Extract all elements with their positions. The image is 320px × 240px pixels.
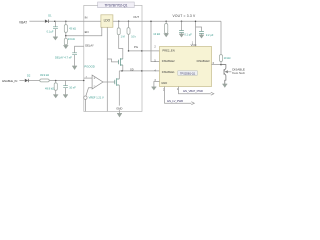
svg-text:TPS7B7702-Q1: TPS7B7702-Q1 bbox=[104, 3, 127, 7]
OUT wire to right bbox=[142, 20, 221, 22]
VCC drop wire with C5 tap bbox=[195, 21, 197, 46]
svg-text:PG: PG bbox=[134, 45, 138, 49]
outer IC block U1 TPS7B7702-Q1 bbox=[84, 5, 142, 111]
ground symbol (U1 GND pin) bbox=[117, 111, 122, 117]
resistor R4 (pull-down) bbox=[54, 81, 57, 95]
svg-text:D1: D1 bbox=[48, 13, 52, 17]
IC U3 (yellow box) bbox=[160, 47, 212, 87]
svg-text:DELAY: DELAY bbox=[85, 43, 94, 47]
junction C bbox=[55, 80, 57, 82]
svg-text:10 nF: 10 nF bbox=[69, 86, 76, 90]
wire VBAT to diode bbox=[29, 20, 44, 22]
svg-text:TPS2DB1-Q1: TPS2DB1-Q1 bbox=[180, 71, 196, 75]
svg-text:13 kΩ: 13 kΩ bbox=[68, 37, 75, 41]
wire OUT down to pin 5 of U3 bbox=[151, 21, 160, 61]
junction A on VBAT line bbox=[54, 20, 56, 22]
label DISABLE from SoC bbox=[232, 67, 246, 75]
svg-text:DELAY 4.7 nF: DELAY 4.7 nF bbox=[55, 55, 72, 59]
resistor R1 (upper divider) bbox=[64, 21, 67, 38]
wire diode to R3 bbox=[29, 80, 40, 82]
svg-text:from SoC: from SoC bbox=[232, 71, 246, 75]
svg-text:IN: IN bbox=[85, 15, 88, 19]
ground (R2) bbox=[63, 46, 68, 50]
wire EN tap to U1 EN pin bbox=[66, 35, 84, 37]
FET2 drain up to SD wire bbox=[118, 71, 120, 79]
svg-text:10 k: 10 k bbox=[131, 36, 136, 39]
resistor Rb (PG pull-up) bbox=[127, 21, 130, 51]
ground (C1) bbox=[53, 37, 58, 41]
wire IN to LDO bbox=[84, 20, 101, 22]
svg-text:LDO: LDO bbox=[104, 18, 111, 22]
resistor R6 to ground bbox=[165, 20, 168, 33]
svg-text:GND: GND bbox=[161, 81, 167, 85]
svg-text:43 kΩ: 43 kΩ bbox=[69, 26, 76, 30]
svg-text:DISABLE1: DISABLE1 bbox=[162, 70, 175, 74]
FET1 (PG pull-down) bbox=[119, 58, 123, 66]
svg-text:2.2 µF: 2.2 µF bbox=[206, 33, 214, 37]
svg-text:D2: D2 bbox=[27, 74, 31, 78]
wire pin6 to Q1 collector node bbox=[212, 64, 222, 66]
svg-text:10 kΩ: 10 kΩ bbox=[153, 32, 160, 36]
svg-text:SD: SD bbox=[130, 68, 134, 72]
svg-text:49.9 kΩ: 49.9 kΩ bbox=[45, 87, 54, 91]
ground (R6) bbox=[164, 34, 169, 38]
part number label box TPS7B7702-Q1 bbox=[98, 2, 135, 8]
svg-text:2: 2 bbox=[154, 45, 156, 48]
resistor R5 (pull-up) bbox=[220, 55, 223, 65]
resistor Ra (internal) bbox=[117, 21, 123, 60]
FET1 source to SD wire bbox=[122, 65, 124, 71]
capacitor C2 (delay cap) bbox=[72, 53, 77, 66]
capacitor C1 (VBAT input cap) bbox=[53, 21, 58, 37]
wire OUT corner down to R5 bbox=[220, 21, 222, 54]
junction at U1 edge (enable) bbox=[83, 80, 84, 81]
GND pin stub of U3 with ground bbox=[151, 82, 159, 91]
wire EN internal bbox=[84, 27, 102, 35]
svg-text:49.9 kΩ: 49.9 kΩ bbox=[40, 73, 49, 77]
svg-text:DISABLE3: DISABLE3 bbox=[197, 59, 210, 63]
svg-text:VREF 1.21 V: VREF 1.21 V bbox=[89, 95, 104, 99]
Q1 base input arrow from SoC bbox=[224, 70, 231, 73]
Vref source bbox=[84, 88, 92, 112]
inner part label box TPS2DB1-Q1 bbox=[178, 71, 198, 76]
FET2 source down to GND rail bbox=[118, 85, 120, 111]
svg-text:PGOOD: PGOOD bbox=[84, 65, 94, 69]
capacitor C4 bbox=[179, 20, 184, 33]
capacitor C3 (enable filter) bbox=[63, 81, 68, 95]
svg-text:0.1 µF: 0.1 µF bbox=[47, 31, 54, 34]
svg-text:ENABLE_IN: ENABLE_IN bbox=[2, 79, 17, 83]
junction B (divider tap from VBAT line) bbox=[65, 20, 67, 22]
wire DELAY pin to delay cap bbox=[75, 46, 84, 52]
ground (C2) bbox=[72, 66, 77, 70]
diode D1 on VBAT line bbox=[45, 20, 49, 23]
svg-text:PRE2_EN: PRE2_EN bbox=[162, 48, 174, 52]
svg-text:1 M: 1 M bbox=[121, 36, 125, 39]
FET2 (EN comparator output) bbox=[115, 78, 120, 85]
wire diode to IN pin of U1 bbox=[49, 20, 84, 22]
svg-text:10 kΩ: 10 kΩ bbox=[224, 56, 231, 60]
svg-text:0.1 µF: 0.1 µF bbox=[184, 33, 192, 37]
svg-text:EN_LV_PWR: EN_LV_PWR bbox=[167, 99, 183, 103]
ground (C5) bbox=[199, 35, 204, 39]
ground (C4) bbox=[179, 34, 184, 38]
transistor Q1 bbox=[221, 65, 226, 84]
capacitor C5 bbox=[196, 27, 204, 35]
svg-text:EN: EN bbox=[85, 30, 89, 34]
PG wire to pin 2 of U3 bbox=[129, 50, 160, 52]
svg-text:VOUT = 3.3 V: VOUT = 3.3 V bbox=[173, 14, 197, 18]
wire ENABLE_IN to diode D2 bbox=[19, 80, 24, 82]
SD wire to pin 4 of U3 bbox=[119, 70, 159, 72]
svg-text:DISABLE2: DISABLE2 bbox=[162, 59, 175, 63]
wire jog to FET1 gate bbox=[107, 59, 118, 62]
wire R3 to U1 bbox=[49, 80, 84, 82]
resistor R2 (lower divider) bbox=[64, 38, 67, 45]
LDO sub-block bbox=[101, 15, 113, 27]
diode D2 bbox=[25, 79, 29, 82]
ground (R4) bbox=[53, 95, 58, 99]
resistor R3 (series) bbox=[40, 79, 49, 82]
svg-text:EN_VBAT_PWR: EN_VBAT_PWR bbox=[183, 89, 203, 93]
ground (C3) bbox=[63, 95, 68, 99]
svg-text:OUT: OUT bbox=[133, 15, 139, 19]
comparator U2 bbox=[92, 75, 103, 89]
net EN_VBAT_PWR (pin 1 bottom) bbox=[179, 87, 214, 96]
net EN_LV_PWR (pin 2 bottom) bbox=[165, 87, 195, 105]
comparator output wire bbox=[103, 81, 115, 83]
wire LDO output to OUT pin bbox=[113, 20, 142, 22]
ground (Q1 emitter) bbox=[222, 84, 227, 88]
internal rail from LDO down to GND bbox=[106, 27, 108, 111]
svg-text:VBAT: VBAT bbox=[19, 20, 27, 24]
